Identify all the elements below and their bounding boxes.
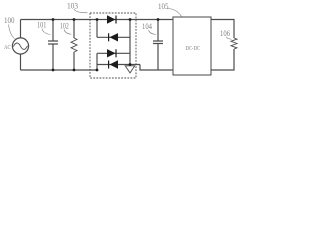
capacitor 104 (153, 41, 163, 44)
rectifier box 103 (90, 13, 136, 78)
wire row4 (97, 64, 140, 66)
diode D4 (109, 60, 118, 68)
svg-text:105: 105 (158, 1, 169, 11)
wire output top (211, 20, 234, 39)
wire bottom jog to dc-dc (140, 65, 173, 71)
capacitor 101 (48, 41, 58, 44)
dc-dc converter 105 box (173, 17, 211, 75)
ground (125, 66, 135, 73)
diode D1 (107, 15, 116, 23)
node cap101 bottom (52, 69, 55, 72)
wire right rail (129, 20, 131, 65)
diode D3 (107, 49, 116, 57)
svg-text:100: 100 (4, 15, 15, 25)
capacitor 104 bottom lead wire (157, 44, 159, 71)
capacitor 101 top lead wire (52, 20, 54, 42)
leader 106 (226, 37, 232, 40)
wire top rail (21, 19, 174, 21)
svg-text:101: 101 (37, 20, 46, 30)
node res102 top (73, 18, 76, 21)
wire output bottom (211, 49, 234, 70)
capacitor 101 bottom lead wire (52, 44, 54, 70)
wire left rail upper (node AC1) (96, 20, 98, 38)
svg-text:103: 103 (67, 1, 78, 11)
svg-text:106: 106 (220, 28, 230, 38)
resistor 102 (71, 38, 77, 52)
leader 100 (9, 25, 15, 39)
leader 101 (42, 29, 51, 35)
node AC2 bottom (96, 69, 99, 72)
leader 102 (64, 30, 71, 35)
svg-text:102: 102 (60, 20, 69, 30)
wire left rail lower (node AC2) (96, 53, 98, 70)
resistor 102 top lead wire (73, 20, 75, 39)
ac source V1 top lead wire (20, 20, 22, 38)
node Vout top (129, 18, 132, 21)
wire row2 (97, 36, 130, 38)
svg-text:AC: AC (4, 44, 11, 51)
wire row3 (97, 52, 130, 54)
leader 104 (149, 30, 156, 35)
node cap104 top (157, 18, 160, 21)
node cap101 top (52, 18, 55, 21)
diode D2 (109, 33, 118, 41)
leader lines (9, 9, 232, 40)
resistor 106 (231, 38, 237, 49)
ac source V1 (12, 38, 28, 54)
svg-text:104: 104 (142, 21, 152, 31)
node AC1 top (96, 18, 99, 21)
svg-text:DC-DC: DC-DC (186, 45, 201, 52)
capacitor 104 top lead wire (157, 20, 159, 42)
wire bottom rail left (21, 69, 98, 71)
node ground (129, 63, 132, 66)
node res102 bottom (73, 69, 76, 72)
ac source V1 bottom lead wire (20, 54, 22, 70)
resistor 102 bottom lead wire (73, 52, 75, 70)
leader 105 (167, 9, 182, 17)
junction dots (52, 18, 160, 71)
leader 103 (74, 9, 88, 13)
